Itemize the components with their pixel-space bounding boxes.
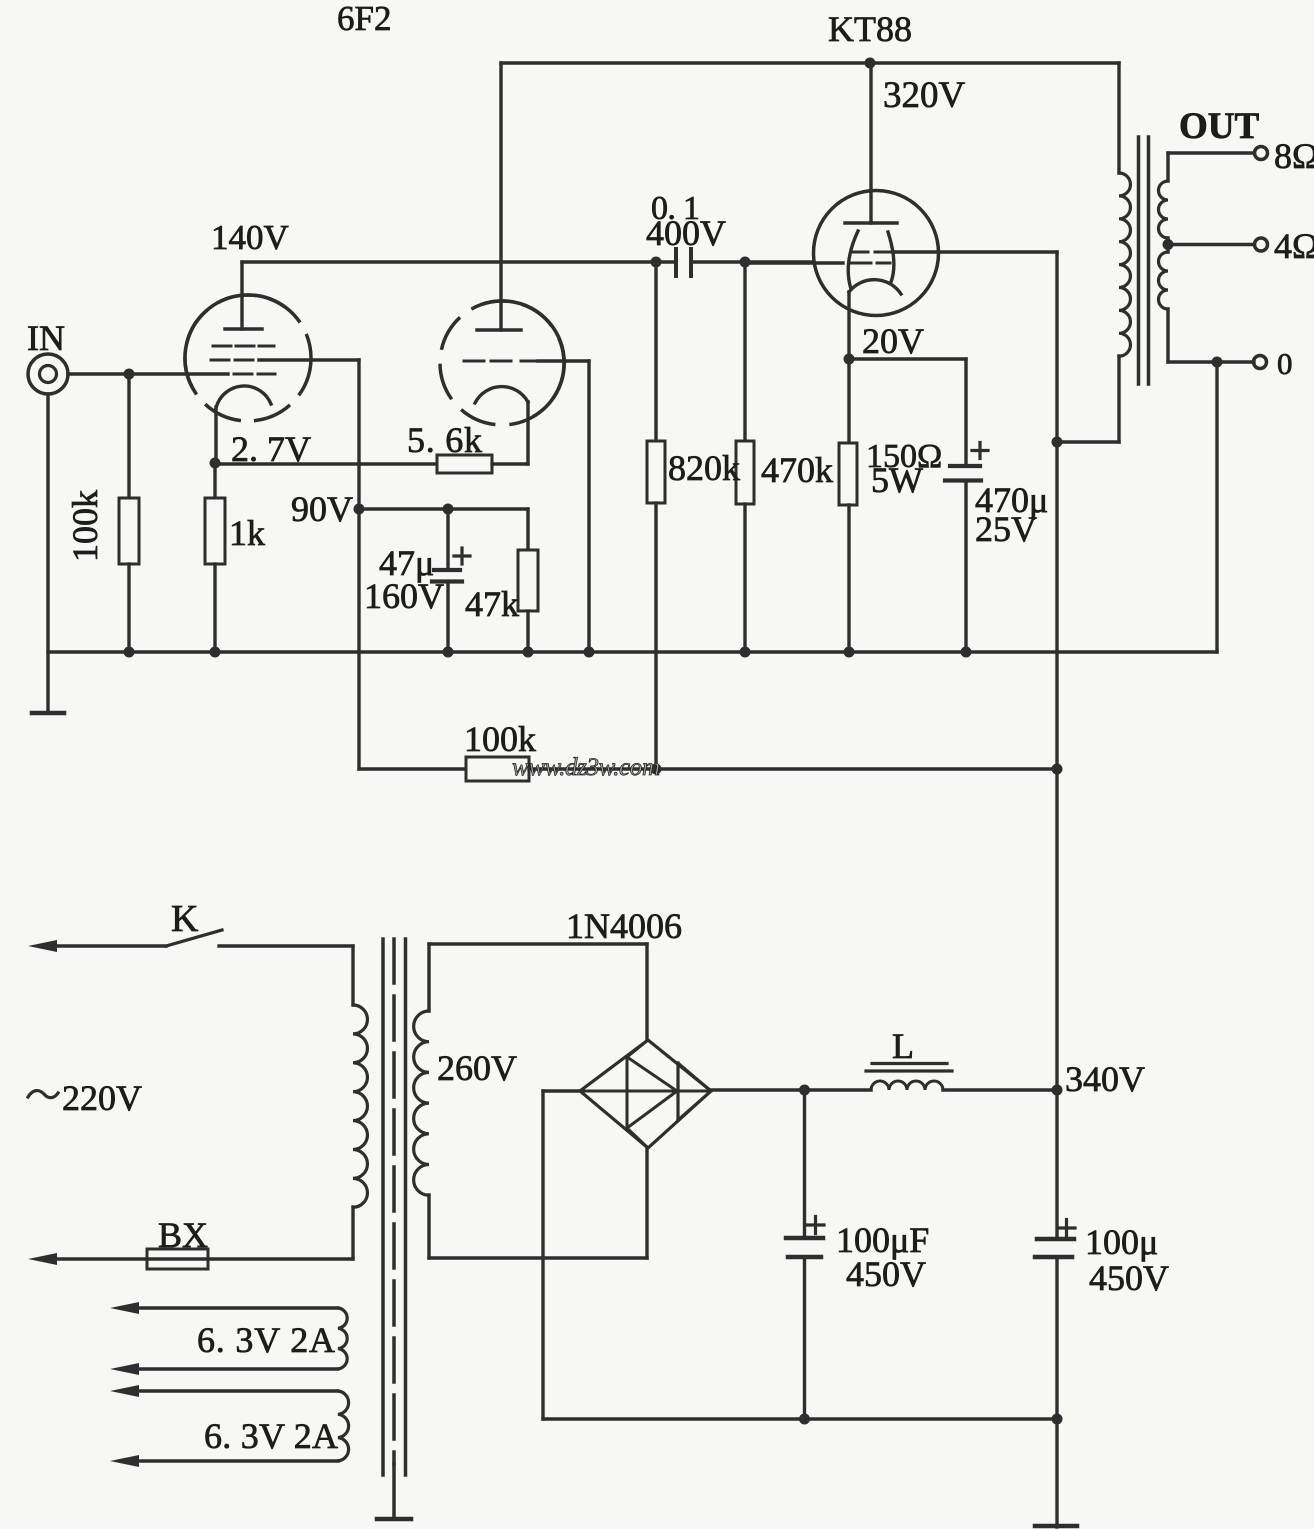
svg-text:BX: BX	[158, 1215, 208, 1255]
svg-text:400V: 400V	[646, 213, 726, 253]
svg-text:450V: 450V	[846, 1254, 926, 1294]
svg-text:IN: IN	[27, 318, 65, 358]
svg-text:320V: 320V	[883, 75, 966, 116]
svg-text:1N4006: 1N4006	[566, 906, 682, 946]
svg-text:6. 3V 2A: 6. 3V 2A	[197, 1320, 335, 1360]
svg-text:5. 6k: 5. 6k	[407, 420, 482, 460]
svg-text:K: K	[171, 898, 199, 940]
svg-text:OUT: OUT	[1179, 106, 1260, 147]
svg-text:6. 3V 2A: 6. 3V 2A	[204, 1416, 338, 1456]
svg-text:6F2: 6F2	[337, 0, 391, 38]
svg-text:260V: 260V	[437, 1048, 517, 1088]
svg-text:www.dz3w.com: www.dz3w.com	[512, 754, 660, 781]
svg-text:220V: 220V	[62, 1078, 142, 1118]
svg-text:L: L	[892, 1026, 914, 1066]
svg-text:470k: 470k	[761, 450, 833, 490]
svg-text:100k: 100k	[464, 719, 536, 759]
svg-text:160V: 160V	[364, 576, 444, 616]
svg-text:450V: 450V	[1089, 1258, 1169, 1298]
svg-text:100k: 100k	[65, 490, 105, 562]
svg-text:0: 0	[1277, 346, 1293, 381]
svg-text:20V: 20V	[862, 321, 924, 361]
svg-text:820k: 820k	[668, 448, 740, 488]
svg-text:1k: 1k	[229, 513, 265, 553]
svg-text:100μ: 100μ	[1085, 1222, 1158, 1262]
svg-text:47k: 47k	[465, 584, 519, 624]
svg-text:140V: 140V	[211, 218, 289, 257]
svg-text:90V: 90V	[291, 489, 353, 529]
svg-text:KT88: KT88	[828, 9, 912, 49]
svg-text:340V: 340V	[1065, 1059, 1145, 1099]
svg-text:2. 7V: 2. 7V	[231, 429, 311, 469]
svg-text:4Ω: 4Ω	[1274, 226, 1314, 266]
svg-text:5W: 5W	[871, 460, 923, 500]
svg-text:8Ω: 8Ω	[1274, 136, 1314, 176]
svg-text:25V: 25V	[975, 509, 1037, 549]
